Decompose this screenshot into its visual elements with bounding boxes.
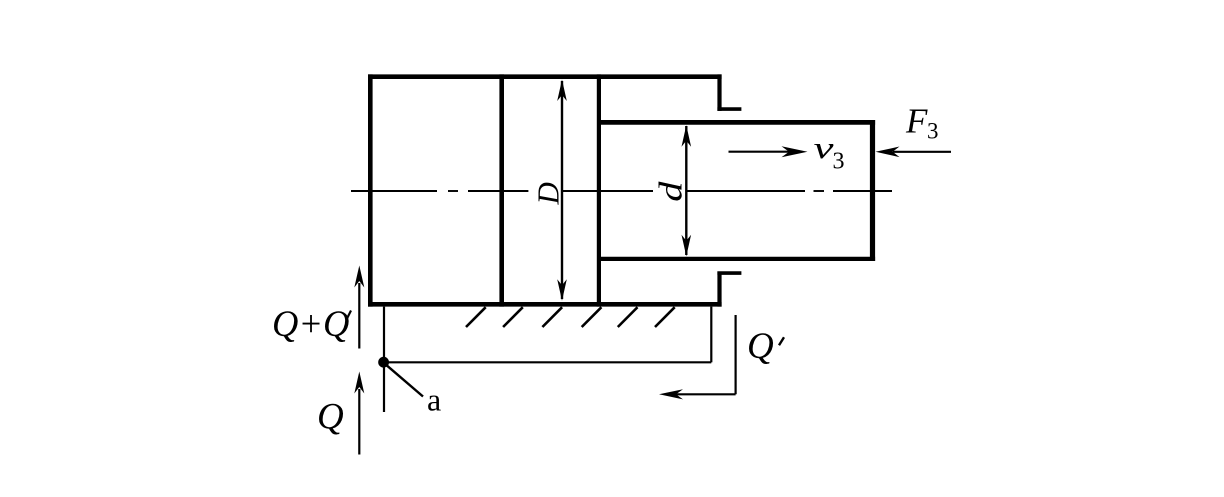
arrow F3 shaft (893, 151, 951, 153)
piston rod right end (870, 120, 875, 261)
cylinder bottom wall (368, 302, 722, 307)
svg-text:F: F (905, 101, 928, 140)
arrow Q' horizontal shaft (676, 393, 736, 395)
svg-text:Q: Q (317, 397, 344, 438)
svg-text:3: 3 (833, 148, 845, 174)
centerline (351, 190, 892, 192)
svg-text:v: v (814, 132, 835, 166)
cylinder right wall lower segment (717, 272, 721, 307)
cylinder top wall (368, 74, 722, 79)
node a dot (378, 357, 389, 368)
arrowhead dimension d top (682, 125, 692, 147)
cylinder left wall (368, 74, 373, 306)
svg-text:Q+Q: Q+Q (272, 303, 349, 344)
pipe: left vertical line (383, 307, 385, 412)
arrowhead dimension D top (557, 80, 567, 102)
arrowhead v3 (782, 146, 808, 157)
arrowhead F3 (876, 147, 900, 158)
arrowhead Q+Q' (354, 266, 364, 288)
dimension d arrow shaft (685, 126, 687, 255)
piston right face (597, 74, 601, 306)
pipe: right vertical line (710, 307, 712, 363)
cylinder right wall upper segment (717, 74, 721, 111)
cylinder gland lower tick (717, 271, 741, 275)
label Q' prime tick (779, 337, 784, 345)
arrow Q' vertical (734, 315, 736, 394)
arrowhead dimension d bottom (682, 235, 692, 256)
arrowhead Q (354, 372, 364, 394)
cylinder gland upper tick (717, 107, 741, 111)
piston left face (499, 74, 504, 306)
svg-text:Q: Q (747, 326, 774, 367)
svg-text:D: D (531, 182, 566, 205)
pipe: bottom horizontal line (384, 361, 711, 363)
label Q+Q' prime tick (347, 311, 352, 320)
svg-text:3: 3 (927, 118, 939, 143)
arrowhead dimension D bottom (557, 279, 567, 301)
arrowhead Q' (659, 389, 683, 399)
arrow Q+Q' shaft (358, 283, 360, 349)
leader line to node a (387, 365, 424, 396)
svg-text:d: d (652, 181, 689, 202)
dimension D arrow shaft (561, 81, 563, 299)
svg-text:a: a (427, 382, 441, 418)
piston rod bottom line (599, 257, 875, 261)
ground hatching (466, 307, 675, 327)
arrow v3 shaft (729, 151, 791, 153)
piston rod top line (599, 120, 875, 125)
arrow Q shaft (358, 389, 360, 455)
